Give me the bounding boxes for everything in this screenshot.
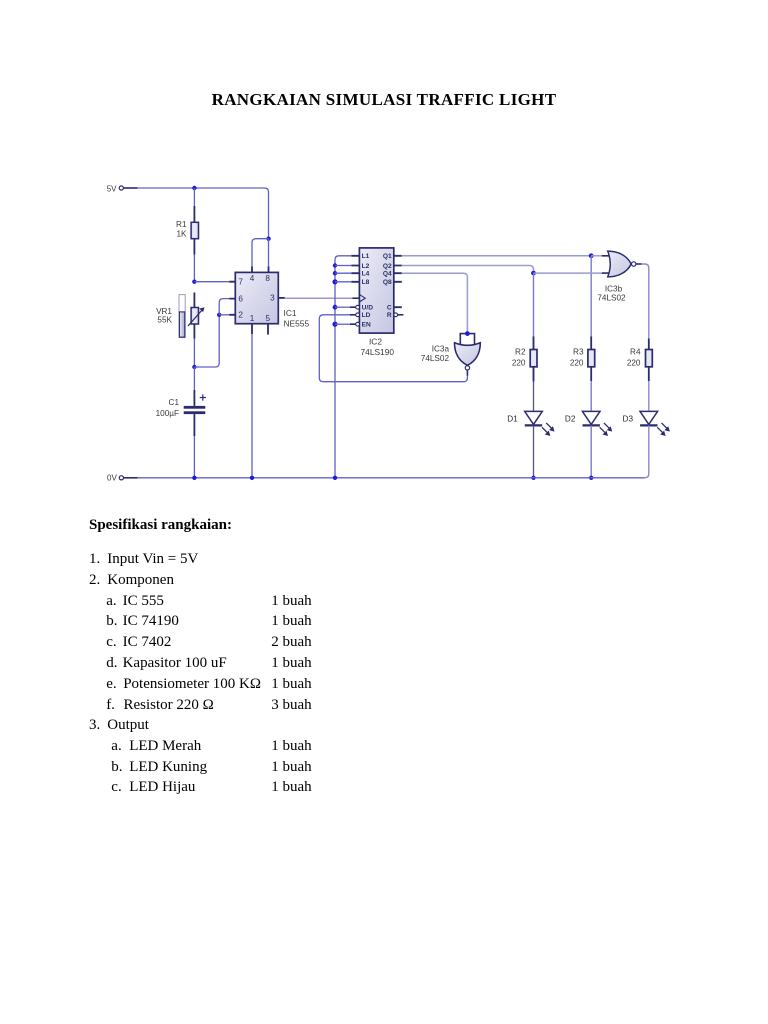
junction node D1 / 0V rail — [531, 476, 535, 480]
junction node bus / L2 — [333, 263, 337, 267]
label IC3b 74LS02 — [597, 284, 626, 302]
resistor R1 — [191, 206, 198, 255]
resistor R4 — [646, 339, 653, 382]
label IC2 74LS190 — [361, 337, 395, 357]
junction node bus / L4 — [333, 271, 337, 275]
junction node bus / EN — [332, 322, 337, 327]
junction node bus / 0V rail — [333, 476, 337, 480]
wire Q1 node down to R3 — [590, 256, 592, 337]
wire D1 to 0V rail — [533, 425, 535, 477]
IC U2: IC2 74LS190 counter — [350, 248, 403, 333]
IC U1: IC1 NE555 timer — [229, 266, 285, 334]
document title — [0, 90, 768, 110]
label R3 220 — [570, 348, 584, 368]
wire C1 to 0V rail — [193, 436, 195, 478]
label C1 100uF — [156, 398, 180, 418]
wire IC2 Q1 to node — [402, 255, 591, 257]
junction node IC1 pins 4-8 — [266, 237, 270, 241]
VR1 slider control — [179, 295, 185, 338]
junction node IC1 pin1 / 0V rail — [250, 476, 254, 480]
wire 5V rail — [138, 188, 269, 239]
wire IC3b output to R4 — [642, 264, 649, 339]
wire bus to EN — [335, 323, 350, 325]
label R2 220 — [512, 348, 526, 368]
junction node VR1 / C1 / feedback — [192, 365, 196, 369]
5V supply terminal — [107, 184, 138, 193]
junction node IC3a tied inputs — [465, 331, 470, 336]
wire VR1 to node — [193, 339, 195, 368]
wire IC1 pin 3 to IC2 clock — [285, 297, 353, 299]
junction node C1 / 0V rail — [192, 476, 196, 480]
junction node bus / L8 — [332, 279, 337, 284]
junction node Q2 / R2 / IC3b input B — [531, 271, 536, 276]
label IC1 NE555 — [284, 308, 310, 328]
potentiometer VR1 — [188, 293, 205, 339]
wire bus to L8 — [335, 281, 351, 283]
wire R2 to D1 — [533, 381, 535, 411]
wire node to IC1 pin 8 — [268, 239, 270, 267]
capacitor C1 — [184, 390, 206, 436]
wire R1 top lead — [193, 188, 195, 206]
wire node to C1 — [193, 367, 195, 390]
NOR gate IC3a 74LS02 — [455, 334, 481, 376]
wire bus to L2 — [335, 265, 351, 267]
resistor R3 — [588, 337, 595, 382]
label R4 220 — [627, 348, 641, 368]
wire node to IC1 pin 6 — [219, 299, 229, 315]
wire IC1 pin 1 to 0V rail — [251, 334, 253, 478]
label R1 1K — [176, 220, 187, 239]
circuit schematic — [0, 0, 768, 512]
junction node IC1 pin 2 — [217, 313, 221, 317]
0V terminal — [107, 474, 137, 483]
label IC3a 74LS02 — [421, 345, 450, 363]
wire node to IC3b input A — [591, 255, 602, 257]
wire 0V rail — [138, 477, 645, 479]
wire IC2 Q2 to node — [402, 266, 534, 274]
junction node bus / UID — [333, 305, 338, 310]
wire bus to UID — [335, 306, 350, 308]
wire D3 to 0V rail — [645, 425, 649, 477]
wire node to IC3b input B — [534, 272, 602, 274]
resistor R2 — [530, 273, 537, 383]
junction node D2 / 0V rail — [589, 476, 593, 480]
wire R3 to D2 — [590, 381, 592, 411]
wire bus to L4 — [335, 272, 351, 274]
junction node R1 / VR1 / IC1 pin 7 — [192, 280, 196, 284]
wire node to IC1 pin 7 — [194, 281, 229, 283]
wire R1 to node — [193, 255, 195, 282]
junction node Q1 / R3 / IC3b input A — [589, 253, 594, 258]
wire feedback node to IC1 pin 2 — [194, 315, 219, 367]
LED D2 — [582, 411, 612, 436]
wire R4 to D3 — [648, 381, 650, 411]
LED D1 — [525, 411, 555, 436]
junction node 5V rail / R1 — [192, 186, 196, 190]
NOR gate IC3b 74LS02 — [602, 251, 642, 277]
LED D3 — [640, 411, 670, 436]
wire IC2 LD to IC3a output — [319, 315, 467, 382]
wire D2 to 0V rail — [590, 425, 592, 477]
wire IC2 Q4 to IC3a inputs — [402, 273, 468, 333]
label VR1 55K — [156, 307, 172, 325]
wire load bus L1 to 0V rail — [335, 256, 351, 478]
wire node to IC1 pin 4 — [252, 239, 269, 267]
wire node to IC1 pin 2 — [219, 314, 229, 316]
